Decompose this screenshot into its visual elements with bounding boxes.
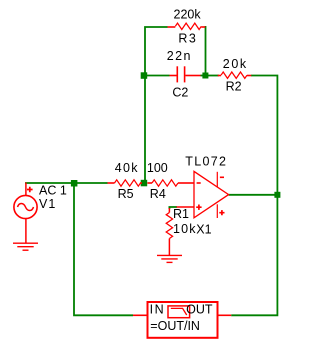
svg-text:IN: IN <box>150 302 166 316</box>
svg-text:R1: R1 <box>173 207 189 221</box>
svg-text:V1: V1 <box>39 197 56 211</box>
svg-text:100: 100 <box>147 161 168 175</box>
svg-text:C2: C2 <box>172 85 188 99</box>
svg-text:R4: R4 <box>150 187 166 201</box>
svg-text:TL072: TL072 <box>185 154 227 168</box>
svg-text:R3: R3 <box>178 31 197 45</box>
svg-text:R2: R2 <box>226 79 242 93</box>
svg-text:=OUT/IN: =OUT/IN <box>150 319 200 333</box>
svg-text:40k: 40k <box>115 161 139 175</box>
svg-text:20k: 20k <box>223 57 248 71</box>
svg-text:X1: X1 <box>196 223 211 237</box>
svg-text:R5: R5 <box>118 187 134 201</box>
svg-text:22n: 22n <box>167 49 192 63</box>
svg-text:220k: 220k <box>174 8 202 22</box>
svg-text:10k: 10k <box>173 222 197 236</box>
svg-text:OUT: OUT <box>186 302 213 316</box>
svg-text:AC 1: AC 1 <box>39 183 67 197</box>
